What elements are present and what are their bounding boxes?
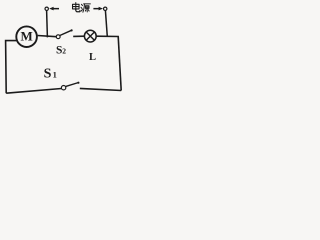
wire: lamp to right corner: [96, 35, 119, 37]
motor M circle: [16, 26, 37, 47]
wire: S2 to lamp: [73, 35, 84, 37]
wire: bottom left segment: [6, 89, 61, 94]
switch S2 contact circle: [56, 35, 60, 39]
glyph 源: [81, 4, 90, 12]
wire: right vertical: [118, 36, 121, 90]
lamp L circle: [84, 30, 96, 42]
wire: bottom right segment: [80, 88, 121, 90]
glyph 电: [73, 3, 80, 12]
lamp X cross: [86, 32, 94, 40]
wire: motor left stub: [6, 41, 17, 94]
switch S1 blade: [66, 83, 79, 87]
wire: right terminal drop: [105, 10, 107, 36]
left power arrow: [49, 7, 59, 11]
right power arrow: [93, 7, 103, 11]
svg-text:M: M: [20, 29, 32, 44]
svg-text:2: 2: [62, 47, 66, 56]
wire: left terminal drop: [46, 10, 49, 37]
left power terminal: [45, 7, 48, 10]
svg-text:L: L: [89, 52, 96, 63]
svg-text:S: S: [44, 66, 52, 81]
svg-text:1: 1: [53, 69, 57, 79]
switch S2 blade: [60, 30, 72, 35]
switch S1 contact circle: [61, 86, 65, 90]
right power terminal: [104, 7, 107, 10]
switch S2 blade tip: [71, 29, 73, 31]
wire: motor to switch S2: [38, 36, 57, 37]
switch S1 blade tip: [77, 82, 79, 84]
